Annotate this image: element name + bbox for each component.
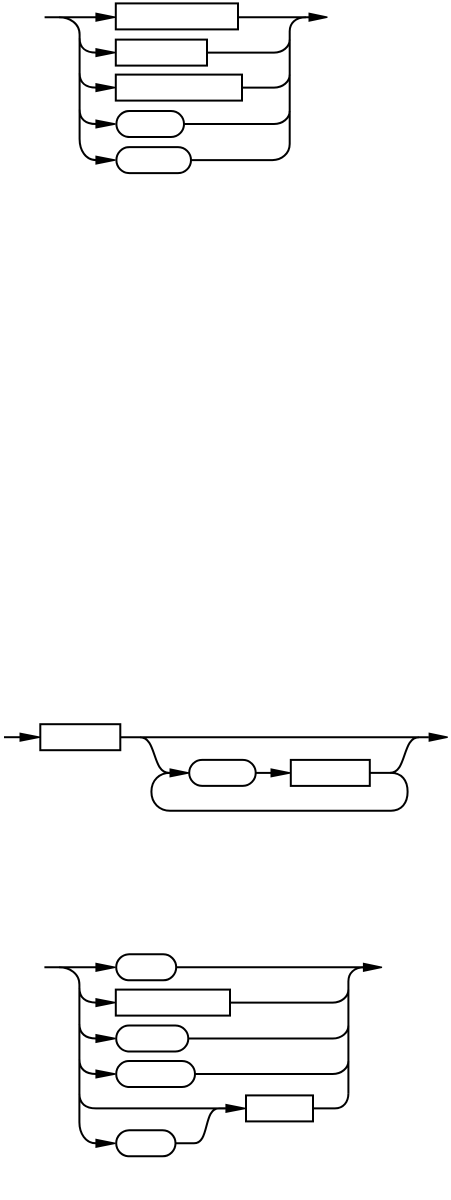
- box 3.2: [116, 990, 230, 1016]
- wire right vertical d3: [348, 967, 364, 1093]
- box B4: [116, 111, 184, 137]
- box B2: [116, 40, 207, 66]
- box 3.1: [116, 954, 176, 980]
- arrowhead r6 d3: [95, 1139, 115, 1148]
- arrowhead r3 d3: [95, 1034, 115, 1043]
- arrowhead exit d1: [309, 13, 328, 22]
- arrowhead r1 d1: [95, 13, 115, 22]
- wire row1 right: [238, 16, 309, 18]
- wire row4 right d3: [195, 1061, 348, 1074]
- arrowhead r1 d3: [95, 963, 115, 972]
- box 3.3: [116, 1026, 188, 1052]
- arrowhead r2 d3: [95, 998, 115, 1007]
- wire branch-down d3 left vertical: [59, 967, 96, 1143]
- box A: [40, 724, 120, 750]
- wire branch-down d2: [140, 737, 171, 773]
- wire B to C: [256, 772, 271, 774]
- wire row5 right: [191, 144, 290, 160]
- wire up-merge d2: [390, 737, 419, 773]
- wire entry d1: [45, 16, 96, 18]
- arrowhead r3 d1: [95, 83, 115, 92]
- box B5: [116, 147, 191, 173]
- arrowhead r5 d3: [225, 1104, 245, 1113]
- arrowhead r2 d1: [95, 48, 115, 57]
- wire exit r4 left: [80, 110, 96, 125]
- wire entry d2: [4, 736, 20, 738]
- wire exit r5 left d3: [79, 1094, 225, 1109]
- arrowhead entry d2: [20, 733, 40, 742]
- box 3.5: [246, 1095, 313, 1121]
- box B3: [116, 75, 242, 101]
- wire row1 right d3: [176, 966, 363, 968]
- wire loop bottom d2: [170, 810, 391, 812]
- wire row5 right d3: [313, 1093, 348, 1108]
- arrowhead exit d2: [429, 733, 448, 742]
- arrowhead exit d3: [363, 963, 382, 972]
- wire exit r4 left d3: [79, 1060, 96, 1075]
- wire row3 right: [242, 75, 290, 88]
- wire row4 right: [184, 111, 290, 124]
- wire right vertical d1: [290, 17, 306, 144]
- box 3.4: [116, 1061, 195, 1087]
- wire row3 right d3: [188, 1026, 348, 1039]
- wire branch-down d1 left vertical: [59, 17, 96, 160]
- wire row2 right d3: [230, 990, 348, 1003]
- wire exit r3 left d3: [79, 1024, 96, 1039]
- box B: [189, 760, 256, 786]
- arrowhead r4 d3: [95, 1069, 115, 1078]
- wire main d2: [120, 736, 428, 738]
- wire after C: [370, 772, 391, 774]
- wire right U-turn d2: [391, 773, 408, 811]
- arrowhead r5 d1: [95, 155, 115, 164]
- box 3.6: [116, 1130, 175, 1156]
- wire left U-turn d2: [151, 773, 170, 811]
- wire exit r3 left: [80, 73, 96, 88]
- wire entry d3: [44, 966, 96, 968]
- wire row6 merge d3: [176, 1108, 226, 1143]
- wire exit r2 left d3: [79, 988, 96, 1003]
- arrowhead B-C d2: [271, 768, 291, 777]
- arrowhead r4 d1: [95, 119, 115, 128]
- box B1: [116, 3, 238, 29]
- wire exit r2 left: [80, 38, 96, 53]
- box C: [291, 760, 370, 786]
- arrowhead loop d2: [170, 768, 189, 777]
- wire row2 right: [207, 40, 290, 53]
